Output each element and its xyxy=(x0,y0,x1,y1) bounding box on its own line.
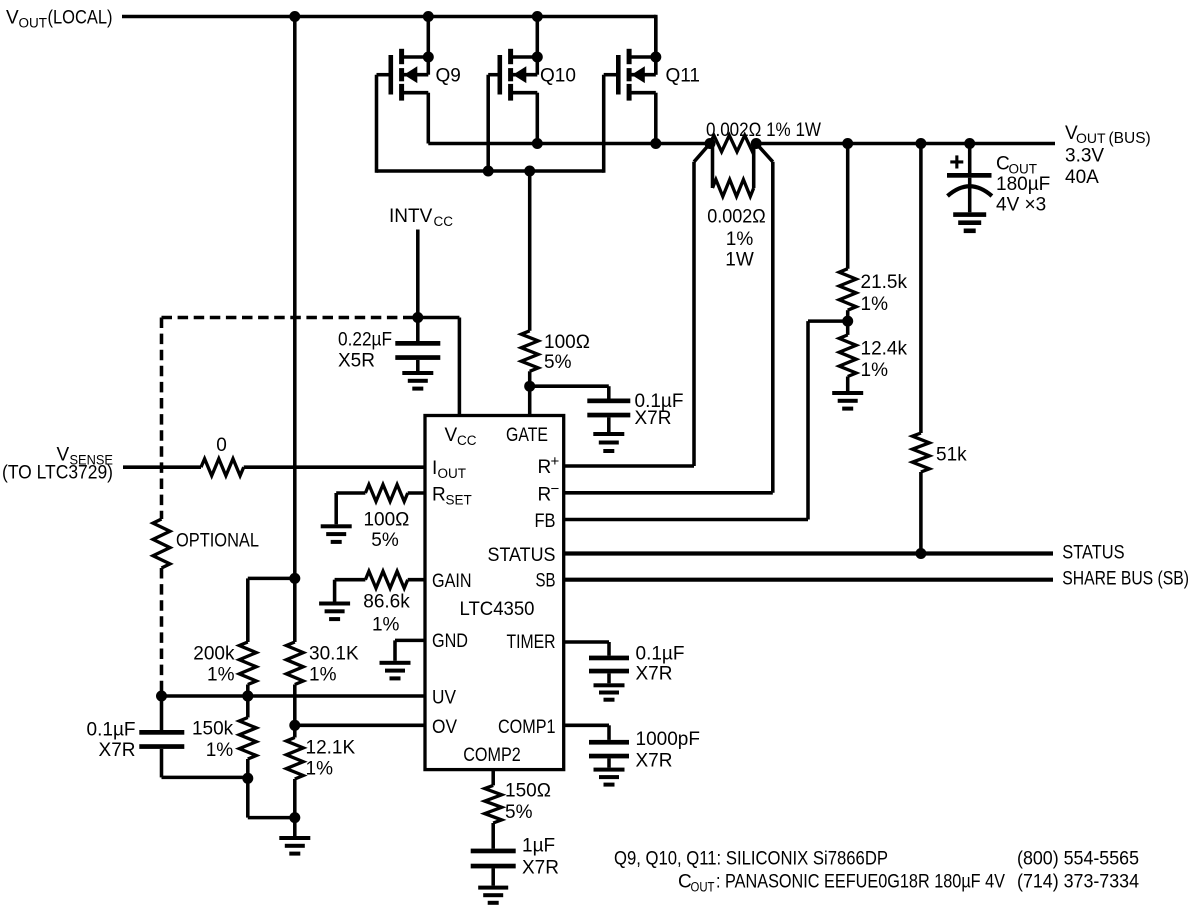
svg-text:180µF: 180µF xyxy=(996,174,1050,195)
svg-text:GATE: GATE xyxy=(506,425,548,446)
svg-text:OPTIONAL: OPTIONAL xyxy=(176,531,259,552)
svg-text:12.1K: 12.1K xyxy=(306,738,356,759)
svg-text:Q10: Q10 xyxy=(540,66,576,87)
svg-text:3.3V: 3.3V xyxy=(1065,146,1104,167)
svg-text:0.1µF: 0.1µF xyxy=(87,720,136,741)
svg-text:5%: 5% xyxy=(505,802,533,823)
svg-text:30.1K: 30.1K xyxy=(309,644,359,665)
svg-text:0.1µF: 0.1µF xyxy=(636,644,685,665)
svg-text:1W: 1W xyxy=(725,250,754,271)
svg-text:(714) 373-7334: (714) 373-7334 xyxy=(1017,872,1139,893)
svg-text:1000pF: 1000pF xyxy=(636,729,700,750)
svg-text:SHARE BUS (SB): SHARE BUS (SB) xyxy=(1062,569,1189,590)
svg-text:100Ω: 100Ω xyxy=(544,332,590,353)
svg-text:X7R: X7R xyxy=(636,664,673,685)
svg-text:1%: 1% xyxy=(726,229,754,250)
svg-text:1%: 1% xyxy=(861,294,889,315)
svg-text:1%: 1% xyxy=(207,665,235,686)
svg-text:R: R xyxy=(538,485,552,506)
svg-text:Q9: Q9 xyxy=(436,66,461,87)
svg-text:1%: 1% xyxy=(372,615,400,636)
svg-text:OV: OV xyxy=(432,717,457,738)
svg-text:200k: 200k xyxy=(193,644,235,665)
svg-text:21.5k: 21.5k xyxy=(861,272,908,293)
svg-text:+: + xyxy=(551,453,560,470)
svg-text:TIMER: TIMER xyxy=(507,632,556,653)
svg-text:Q9, Q10, Q11: SILICONIX Si7866: Q9, Q10, Q11: SILICONIX Si7866DP xyxy=(614,849,888,870)
svg-text:X7R: X7R xyxy=(635,408,672,429)
svg-text:0.002Ω: 0.002Ω xyxy=(707,207,766,228)
svg-text:INTV: INTV xyxy=(389,206,433,227)
svg-text:STATUS: STATUS xyxy=(488,545,556,566)
svg-text:4V ×3: 4V ×3 xyxy=(996,195,1046,216)
svg-text:I: I xyxy=(432,458,437,479)
svg-text:X7R: X7R xyxy=(522,858,559,879)
svg-text:(TO LTC3729): (TO LTC3729) xyxy=(2,463,113,484)
svg-text:OUT: OUT xyxy=(19,16,48,31)
svg-text:1%: 1% xyxy=(306,759,334,780)
svg-text:0.22µF: 0.22µF xyxy=(338,330,392,351)
svg-text:FB: FB xyxy=(535,511,556,532)
svg-text:V: V xyxy=(445,425,458,446)
svg-text:STATUS: STATUS xyxy=(1062,543,1124,564)
svg-text:OUT: OUT xyxy=(1076,130,1106,146)
svg-text:UV: UV xyxy=(432,688,456,709)
svg-text:SB: SB xyxy=(536,571,556,592)
svg-text:−: − xyxy=(551,481,560,498)
svg-text:X7R: X7R xyxy=(636,751,673,772)
svg-text:V: V xyxy=(6,8,19,29)
svg-text:GAIN: GAIN xyxy=(432,571,472,592)
svg-text:0: 0 xyxy=(216,435,227,456)
svg-text:Q11: Q11 xyxy=(666,66,701,87)
svg-text:86.6k: 86.6k xyxy=(363,592,410,613)
svg-text:1%: 1% xyxy=(861,360,889,381)
svg-text:COMP1: COMP1 xyxy=(498,717,556,738)
svg-text:R: R xyxy=(538,457,552,478)
svg-text:(800) 554-5565: (800) 554-5565 xyxy=(1017,849,1139,870)
svg-text:100Ω: 100Ω xyxy=(363,510,409,531)
svg-text:(LOCAL): (LOCAL) xyxy=(48,8,113,29)
svg-text:(BUS): (BUS) xyxy=(1109,130,1151,147)
svg-text:40A: 40A xyxy=(1065,167,1099,188)
svg-text:51k: 51k xyxy=(936,445,967,466)
svg-text:150Ω: 150Ω xyxy=(505,781,551,802)
svg-text:CC: CC xyxy=(457,433,477,448)
svg-text:GND: GND xyxy=(432,631,468,652)
svg-text:5%: 5% xyxy=(371,530,399,551)
svg-text:LTC4350: LTC4350 xyxy=(460,599,535,620)
svg-text:R: R xyxy=(432,485,446,506)
svg-text:1%: 1% xyxy=(206,740,234,761)
svg-text:COMP2: COMP2 xyxy=(463,745,521,766)
svg-text:OUT: OUT xyxy=(438,466,467,481)
svg-text:5%: 5% xyxy=(544,352,572,373)
svg-text:: PANASONIC EEFUE0G18R 180µF 4: : PANASONIC EEFUE0G18R 180µF 4V xyxy=(716,872,1005,893)
svg-text:CC: CC xyxy=(434,214,454,229)
svg-text:0.002Ω 1% 1W: 0.002Ω 1% 1W xyxy=(706,120,821,141)
svg-text:1%: 1% xyxy=(309,665,337,686)
svg-text:12.4k: 12.4k xyxy=(861,339,908,360)
svg-text:X7R: X7R xyxy=(99,740,136,761)
svg-text:150k: 150k xyxy=(192,719,234,740)
svg-text:1µF: 1µF xyxy=(522,836,555,857)
svg-text:OUT: OUT xyxy=(691,880,715,895)
svg-text:X5R: X5R xyxy=(338,351,375,372)
svg-text:SET: SET xyxy=(446,493,472,508)
